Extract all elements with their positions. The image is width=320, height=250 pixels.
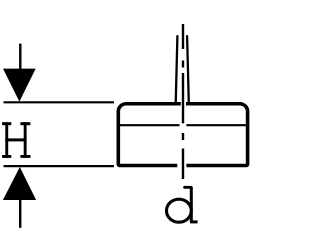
seam line left	[120, 124, 180, 126]
cap outline left part	[118, 104, 181, 166]
dimension extension line top	[4, 101, 115, 103]
label H	[2, 122, 30, 158]
centerline segment 3	[182, 149, 184, 180]
centerline dot 1	[182, 61, 184, 68]
centerline dot 2	[182, 133, 184, 140]
label d	[167, 187, 198, 223]
cap outline right part	[186, 104, 248, 166]
arrow down (top)	[3, 44, 36, 102]
centerline segment 1	[182, 24, 184, 49]
rod edge left	[176, 36, 178, 103]
dimension extension line bottom	[4, 165, 115, 167]
arrow up (bottom)	[3, 167, 36, 228]
rod edge right	[187, 36, 189, 103]
centerline segment 2	[182, 73, 184, 123]
seam line right	[186, 124, 246, 126]
